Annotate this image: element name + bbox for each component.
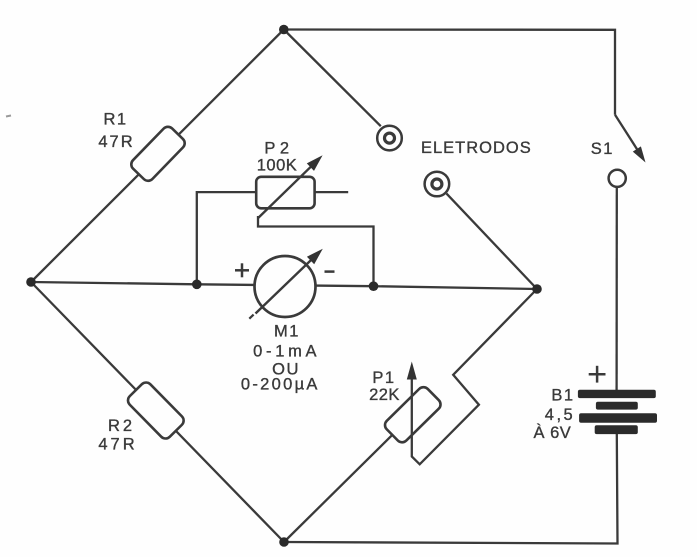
svg-text:R2: R2	[108, 417, 135, 435]
meter M1 needle arrow	[249, 249, 322, 319]
wire P2 wiper to center rail junction	[258, 216, 374, 286]
svg-text:M1: M1	[274, 322, 300, 340]
wire P2 left terminal to center rail junction	[197, 192, 256, 284]
svg-text:P1: P1	[372, 369, 395, 387]
node left junction	[26, 277, 36, 287]
meter M1 body	[255, 256, 316, 317]
wire center rail (left node through meter to right node)	[31, 282, 537, 289]
label M1 value	[241, 322, 320, 393]
wire right node zigzag to P1 wiper	[412, 289, 537, 464]
label P1 value	[369, 369, 400, 404]
potentiometer P2 wiper arrow	[258, 155, 323, 218]
svg-text:22K: 22K	[369, 386, 400, 404]
switch S1 contact	[609, 170, 626, 187]
svg-text:47R: 47R	[98, 436, 137, 454]
battery plus sign	[589, 366, 606, 383]
node meter-left junction	[192, 280, 202, 290]
electrode 2	[425, 172, 450, 197]
meter M1 plus sign	[235, 263, 249, 277]
potentiometer P2 body	[256, 177, 314, 209]
wire top node to electrode 1	[284, 30, 381, 127]
meter M1 minus sign	[325, 270, 335, 273]
battery B1 plate 4 short	[595, 425, 638, 434]
potentiometer P1 body	[383, 385, 443, 445]
svg-text:B1: B1	[551, 387, 574, 405]
svg-text:47R: 47R	[98, 133, 134, 151]
resistor R2 body	[125, 380, 186, 441]
svg-text:0-200µA: 0-200µA	[241, 376, 320, 394]
svg-text:4,5: 4,5	[545, 406, 575, 424]
node bottom junction	[279, 537, 289, 547]
wire electrode 2 to right node	[447, 194, 538, 289]
wire P2 right terminal stub	[315, 191, 349, 193]
wire bottom node to P1 body	[284, 435, 393, 542]
svg-text:ELETRODOS: ELETRODOS	[421, 139, 532, 157]
svg-text:100K: 100K	[257, 157, 298, 175]
wire battery negative to bottom rail	[284, 434, 618, 544]
resistor R1 body	[129, 124, 187, 183]
wire switch S1 to battery positive	[615, 187, 618, 390]
label R2	[98, 417, 137, 454]
wire bottom-left arm (left node to bottom node)	[31, 282, 284, 542]
node right junction	[532, 284, 542, 294]
label B1 value	[534, 387, 576, 442]
stray print mark	[6, 116, 11, 117]
battery B1 plate 2 short	[596, 402, 638, 410]
wire top rail (top node to switch)	[284, 30, 615, 115]
battery B1 plate 3 long	[579, 413, 657, 423]
battery B1 plate 1 long	[578, 390, 656, 398]
node top junction	[279, 25, 289, 35]
node meter-right junction	[369, 281, 379, 291]
switch S1 blade arrow	[615, 115, 646, 163]
label S1	[591, 140, 614, 158]
svg-text:0-1mA: 0-1mA	[253, 343, 320, 361]
electrode 1	[377, 126, 402, 151]
wire top-left arm (top node to left node)	[31, 30, 284, 283]
svg-text:P2: P2	[264, 140, 293, 158]
potentiometer P1 wiper arrowhead	[407, 362, 417, 380]
svg-text:R1: R1	[103, 111, 127, 129]
label ELETRODOS	[421, 139, 532, 157]
label R1	[98, 111, 134, 152]
label P2 value	[257, 140, 298, 175]
svg-text:À 6V: À 6V	[534, 423, 572, 442]
svg-text:S1: S1	[591, 140, 614, 158]
